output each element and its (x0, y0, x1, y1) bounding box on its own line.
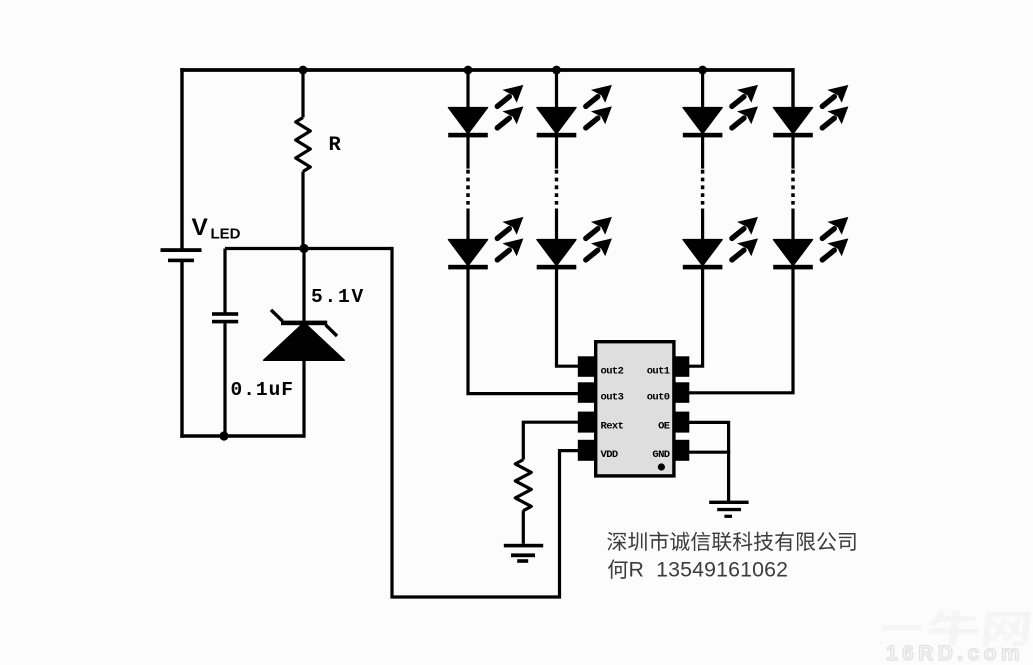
wire mid node horizontal (225, 247, 392, 250)
battery VLED positive plate (161, 248, 202, 252)
pin OE (right 3) (675, 412, 690, 433)
wire string2 to LED D2b (555, 209, 558, 240)
wire string1 to LED D1b (466, 209, 469, 240)
zener diode D1 5.1V (264, 310, 345, 360)
LED D3b (683, 217, 758, 270)
svg-text:16RD.com: 16RD.com (886, 642, 1024, 665)
wire OE pin to ground (689, 422, 729, 501)
node junction rail-string3 (698, 66, 707, 75)
IC U1 index dot (658, 463, 665, 470)
wire string3 rail to LED (701, 70, 704, 108)
wire LED D1a cathode (466, 130, 469, 169)
svg-text:LED: LED (211, 226, 241, 243)
LED D3a (683, 85, 758, 138)
wire LED D2a cathode (555, 130, 558, 169)
svg-text:5.1V: 5.1V (311, 286, 365, 308)
svg-text:out1: out1 (647, 365, 670, 377)
svg-text:GND: GND (652, 449, 669, 461)
resistor R (296, 118, 311, 172)
LED D1b (448, 217, 523, 270)
node junction rail-string1 (464, 66, 473, 75)
pin out3 (left 2) (578, 382, 595, 403)
wire top supply rail (180, 68, 793, 72)
wire battery negative to bottom rail (180, 262, 183, 438)
resistor R2 (Rext) (515, 460, 531, 511)
wire rail to resistor R (301, 70, 304, 118)
wire node to capacitor C1 (223, 249, 226, 313)
wire string3 to IC pin (689, 262, 703, 366)
wire string1 to IC pin (468, 262, 579, 394)
text company name (607, 532, 855, 552)
wire string3 to LED D3b (701, 209, 704, 240)
wire node to VDD loop (390, 249, 578, 598)
wire string1 dashed continuation (466, 170, 470, 205)
pin out1 (right 1) (675, 356, 690, 377)
wire bottom-left rail (180, 434, 304, 437)
wire LED D3a cathode (701, 130, 704, 169)
svg-text:Rext: Rext (601, 420, 624, 432)
pin VDD (left 4) (578, 440, 595, 461)
node junction rail-R (299, 66, 308, 75)
capacitor C1 bottom plate (212, 320, 238, 324)
wire left branch down to battery (180, 68, 183, 249)
LED D2b (537, 217, 612, 270)
svg-text:0.1uF: 0.1uF (231, 379, 295, 401)
node junction capacitor-bottom rail (219, 431, 228, 440)
wire GND pin to ground (689, 451, 731, 454)
svg-text:OE: OE (658, 420, 670, 432)
LED D4a (773, 85, 848, 138)
battery VLED negative plate (168, 259, 194, 263)
LED D4b (773, 217, 848, 270)
svg-text:out3: out3 (601, 391, 624, 403)
text contact line (608, 557, 788, 581)
wire zener D1 anode to bottom rail (302, 360, 305, 438)
wire node to zener D1 cathode (302, 249, 305, 323)
ground GND2 (IC) (709, 501, 748, 518)
wire string2 rail to LED (555, 70, 558, 108)
wire capacitor C1 to bottom rail (223, 323, 226, 436)
wire string3 dashed continuation (701, 170, 705, 205)
wire string4 dashed continuation (791, 170, 795, 205)
wire string2 dashed continuation (555, 170, 559, 205)
wire string4 to IC pin (689, 262, 794, 393)
wire Rext pin to resistor R2 (523, 422, 578, 459)
wire string1 rail to LED (466, 70, 469, 108)
wire string4 to LED D4b (791, 209, 794, 240)
svg-text:VDD: VDD (601, 449, 618, 461)
LED D2a (537, 85, 612, 138)
wire LED D4a cathode (791, 130, 794, 169)
svg-text:R 13549161062: R 13549161062 (629, 557, 789, 581)
node junction R-zener (299, 244, 308, 253)
wire string2 to IC pin (557, 262, 579, 366)
LED D1a (448, 85, 523, 138)
pin out2 (left 1) (578, 356, 595, 377)
op-amp driver IC U1 body (596, 342, 674, 476)
svg-text:R: R (329, 134, 342, 157)
node junction rail-string2 (552, 66, 561, 75)
svg-text:out2: out2 (601, 365, 624, 377)
svg-text:out0: out0 (647, 391, 670, 403)
pin out0 (right 2) (675, 382, 690, 403)
pin GND (right 4) (675, 440, 690, 461)
ground GND1 (Rext) (504, 544, 543, 563)
wire string4 rail to LED (791, 68, 794, 108)
pin Rext (left 3) (578, 412, 595, 433)
wire resistor R to node (301, 172, 304, 249)
wire resistor R2 to ground (522, 510, 525, 544)
watermark 一牛网 logo (881, 610, 1031, 646)
svg-text:V: V (192, 214, 209, 241)
capacitor C1 top plate (212, 312, 238, 316)
